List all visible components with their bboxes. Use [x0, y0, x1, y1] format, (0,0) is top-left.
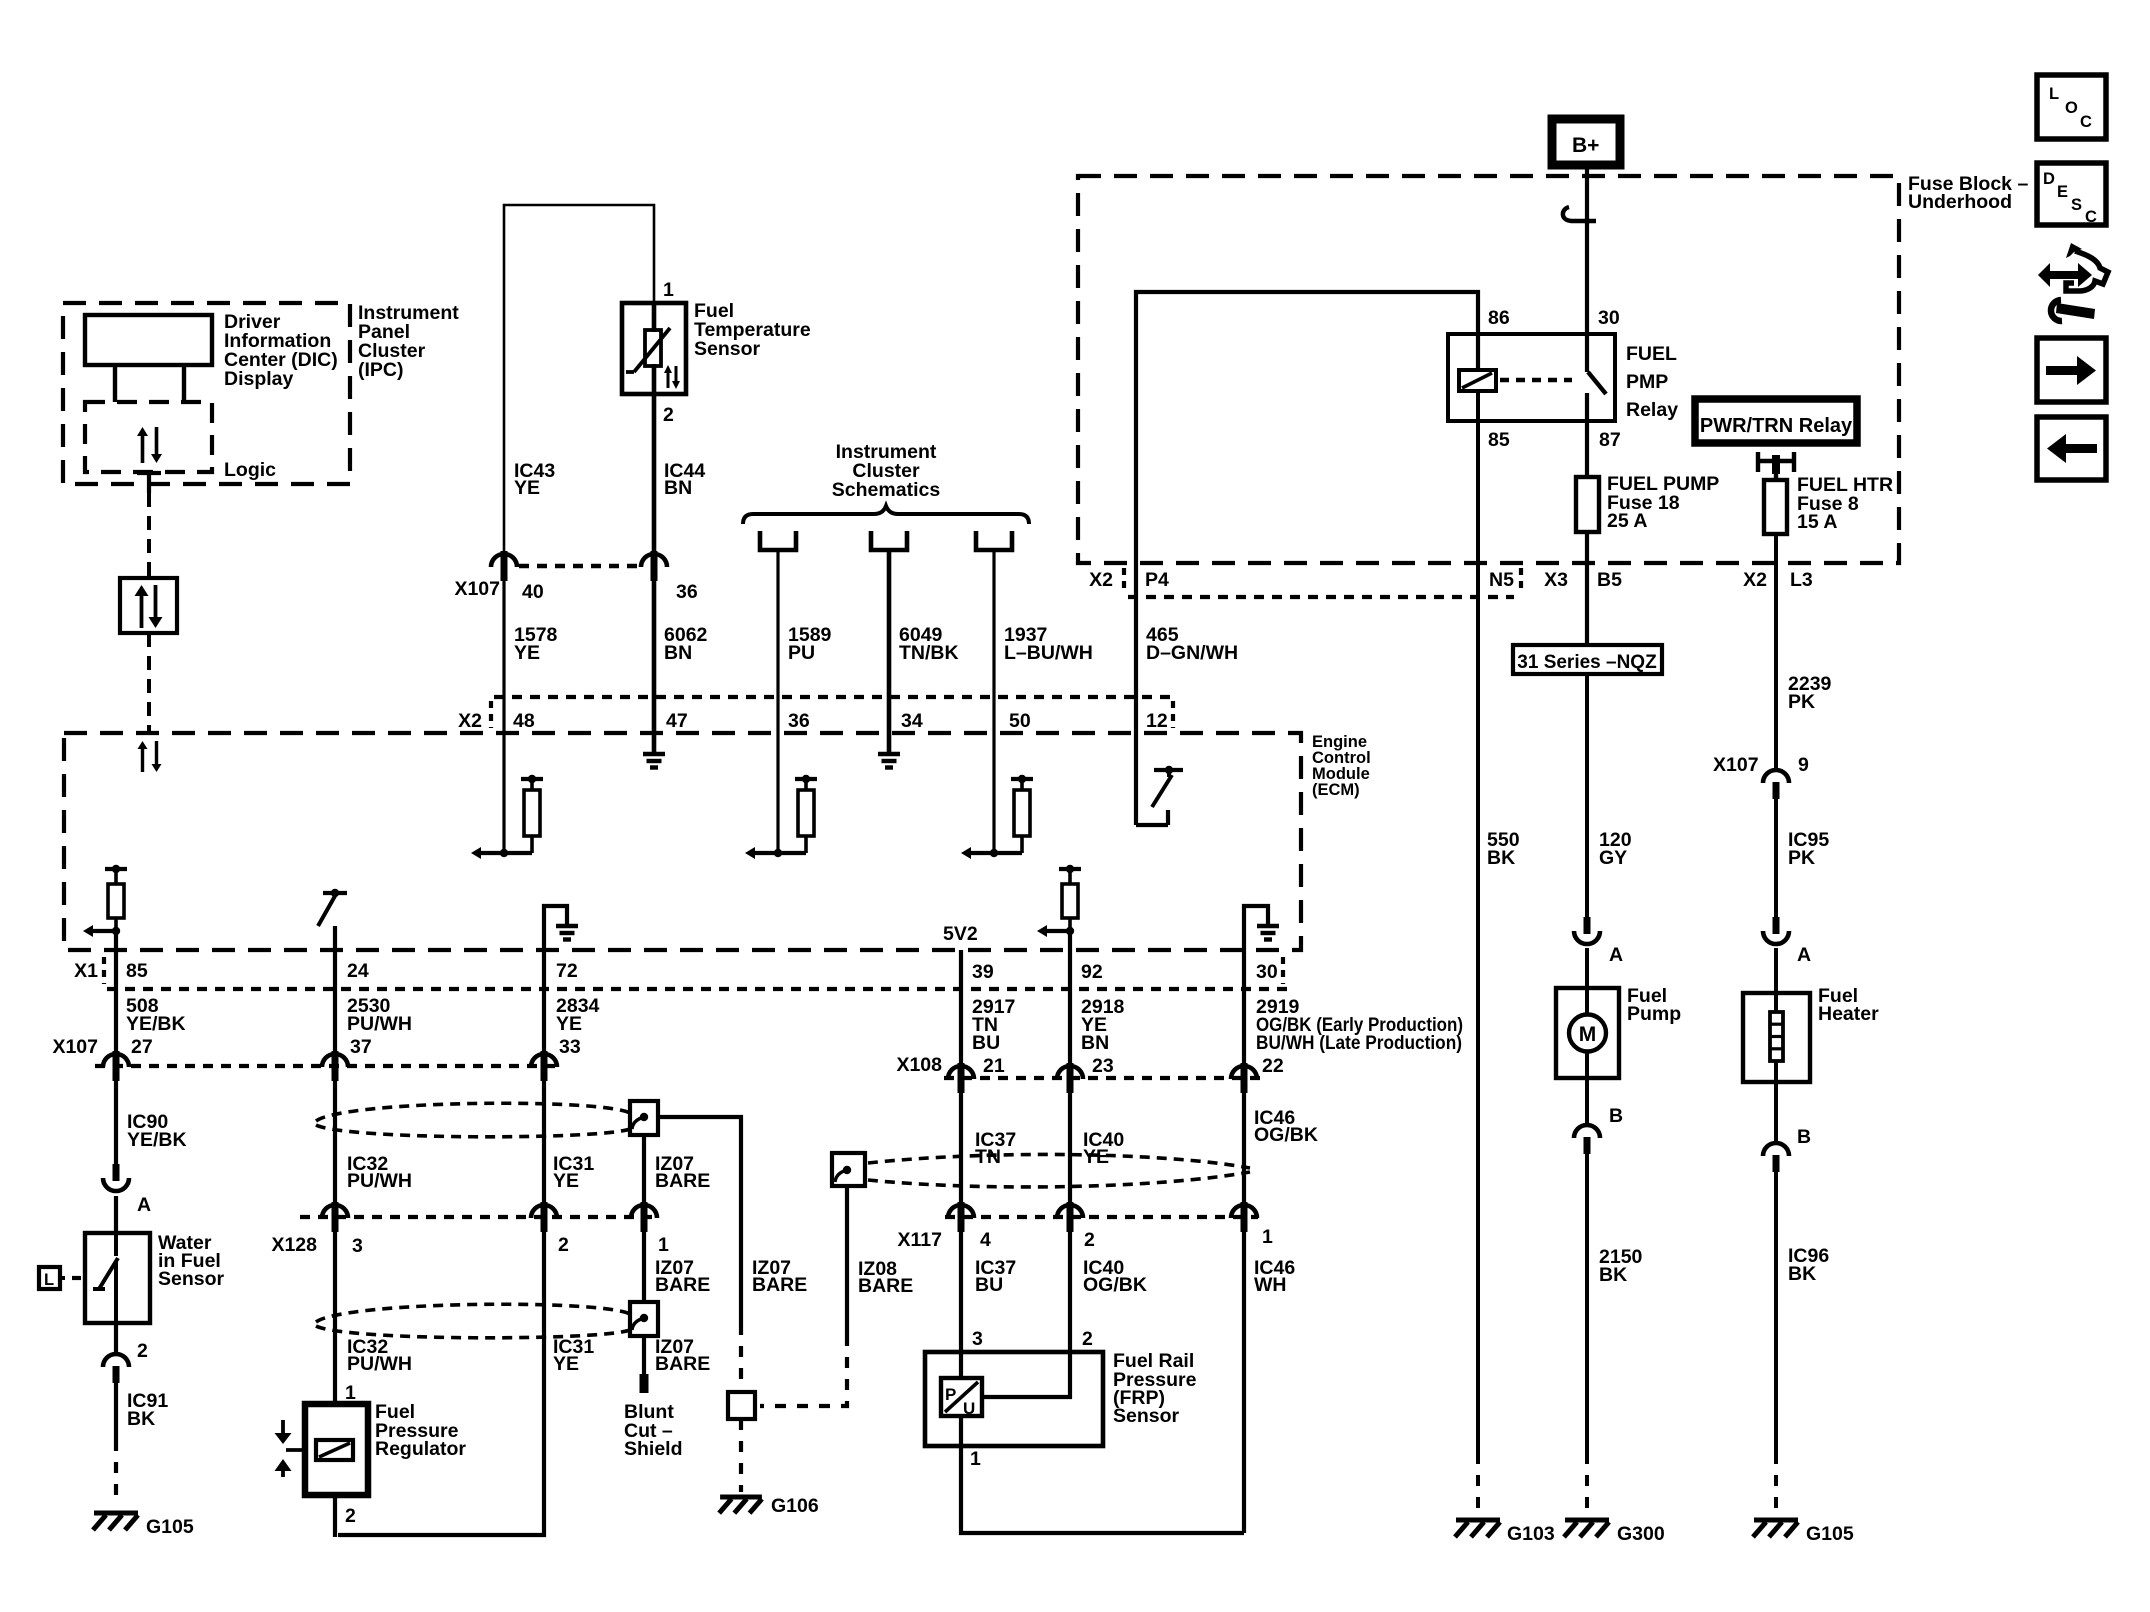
ECM serial data arrows	[138, 741, 162, 772]
shield termination IZ07 lower	[630, 1302, 658, 1336]
svg-text:PWR/TRN Relay: PWR/TRN Relay	[1700, 415, 1853, 437]
ground G105 left	[93, 1513, 194, 1538]
connector X107 pin 33	[531, 1051, 557, 1081]
Instrument Panel Cluster dashed box	[63, 303, 350, 484]
connector X107 pin 27	[103, 1051, 129, 1081]
fuel heater element	[1770, 993, 1783, 1082]
wire IC32 PU/WH upper	[333, 1081, 337, 1204]
wire 465 D-GN/WH	[1134, 563, 1138, 825]
thermistor arrows	[664, 365, 680, 389]
IZ08 shield drain dashed	[760, 1335, 847, 1406]
IPC receptacle 6049	[871, 531, 907, 550]
svg-text:GY: GY	[1599, 847, 1627, 869]
svg-text:12: 12	[1146, 710, 1168, 732]
wire IC96 BK	[1774, 1160, 1778, 1453]
ground G103	[1455, 1520, 1555, 1545]
IC40 label lower	[1083, 1257, 1147, 1296]
IC96 BK label	[1788, 1245, 1829, 1285]
svg-text:92: 92	[1081, 961, 1103, 983]
Fuel Heater label	[1818, 985, 1879, 1025]
svg-text:X2: X2	[1743, 569, 1767, 591]
wire IC43 YE top jumper	[504, 205, 654, 566]
svg-text:G105: G105	[1806, 1523, 1854, 1545]
svg-text:Sensor: Sensor	[694, 338, 761, 360]
FUEL HTR fuse 8	[1764, 474, 1787, 534]
svg-text:X107: X107	[454, 578, 500, 600]
svg-text:22: 22	[1262, 1055, 1284, 1077]
FRP sensor label	[1113, 1350, 1197, 1427]
IC96 dashed to ground	[1774, 1453, 1778, 1512]
svg-text:1: 1	[345, 1382, 356, 1404]
Instrument Cluster Schematics label	[832, 441, 941, 501]
LOC legend box	[2037, 75, 2106, 139]
IC31 label upper	[553, 1153, 594, 1192]
wire labels row 1012	[126, 995, 1463, 1054]
connector A label	[137, 1194, 151, 1216]
shield drain dashed to G106	[739, 1419, 743, 1492]
svg-text:OG/BK: OG/BK	[1083, 1274, 1147, 1296]
svg-text:B+: B+	[1572, 134, 1599, 157]
svg-text:PU/WH: PU/WH	[347, 1170, 412, 1192]
svg-text:P: P	[945, 1385, 956, 1404]
svg-text:X108: X108	[896, 1054, 942, 1076]
svg-text:(ECM): (ECM)	[1312, 781, 1360, 799]
X117 row labels	[898, 1226, 1273, 1251]
svg-text:15 A: 15 A	[1797, 511, 1837, 533]
svg-text:Sensor: Sensor	[1113, 1405, 1180, 1427]
Blunt Cut Shield label	[624, 1401, 683, 1460]
svg-text:9: 9	[1798, 754, 1809, 776]
svg-text:FUEL: FUEL	[1626, 343, 1677, 365]
IZ07 label lower	[655, 1336, 710, 1375]
svg-text:E: E	[2057, 183, 2068, 201]
next page arrow box	[2037, 338, 2106, 402]
svg-text:BK: BK	[1599, 1264, 1627, 1286]
IC40 label upper	[1083, 1129, 1124, 1168]
svg-text:YE: YE	[1083, 1146, 1109, 1168]
FUEL PMP Relay label	[1626, 343, 1678, 421]
ECM connector X2 dotted line	[494, 695, 1175, 699]
svg-text:X3: X3	[1544, 569, 1568, 591]
connector X117 dotted line	[945, 1215, 1258, 1219]
svg-text:3: 3	[352, 1235, 363, 1257]
wire 2530 PU/WH	[333, 926, 337, 1053]
fuel pump motor	[1569, 988, 1606, 1078]
connector B fuel pump	[1574, 1078, 1623, 1154]
svg-text:86: 86	[1488, 307, 1510, 329]
serial data dashed wire upper	[147, 493, 151, 578]
IC43 IC44 wire labels	[514, 460, 705, 499]
ECM ground pin 47	[643, 754, 665, 768]
svg-text:33: 33	[559, 1036, 581, 1058]
svg-text:P4: P4	[1145, 569, 1169, 591]
water sensor switch	[93, 1233, 118, 1323]
twisted pair ellipse upper left	[316, 1103, 630, 1137]
Fuse Block - Underhood dashed box	[1078, 176, 1899, 563]
FRP pin 1 label	[970, 1448, 981, 1470]
wire labels row 640	[514, 624, 1238, 664]
wire B+ to relay pin 30	[1585, 165, 1589, 334]
svg-text:PMP: PMP	[1626, 371, 1668, 393]
wire 2918 YE BN	[1068, 931, 1072, 1065]
fuel temperature sensor pins	[663, 279, 674, 426]
svg-text:30: 30	[1598, 307, 1620, 329]
IZ07 label middle	[655, 1257, 710, 1296]
svg-text:Display: Display	[224, 368, 294, 390]
svg-text:2: 2	[137, 1340, 148, 1362]
FUEL HTR fuse label	[1797, 474, 1893, 533]
wire IC46 OG/BK	[1242, 1093, 1246, 1204]
FRP sensor pin labels top	[972, 1328, 1093, 1350]
svg-text:25 A: 25 A	[1607, 510, 1647, 532]
IC91 dashed to ground	[114, 1440, 118, 1506]
svg-text:40: 40	[522, 581, 544, 603]
svg-text:1: 1	[970, 1448, 981, 1470]
svg-text:85: 85	[1488, 429, 1510, 451]
svg-text:O: O	[2065, 99, 2078, 117]
connector X128 dotted line	[300, 1215, 658, 1219]
svg-text:BU/WH (Late Production): BU/WH (Late Production)	[1256, 1032, 1462, 1054]
svg-text:BARE: BARE	[858, 1275, 913, 1297]
31 Series -NQZ box	[1513, 532, 1662, 674]
IZ07 drain label	[752, 1257, 807, 1296]
X108 row labels	[896, 1054, 1283, 1077]
svg-text:BK: BK	[1788, 1263, 1816, 1285]
svg-text:Sensor: Sensor	[158, 1268, 225, 1290]
svg-text:YE: YE	[514, 477, 540, 499]
FRP internal wire pin 2	[982, 1352, 1070, 1397]
wire 2834 YE	[542, 950, 546, 1053]
X128 row labels	[271, 1234, 669, 1257]
wire into fuel heater	[1774, 948, 1778, 993]
svg-text:WH: WH	[1254, 1274, 1287, 1296]
relay FUEL PMP box	[1448, 334, 1615, 421]
svg-text:PU: PU	[788, 642, 815, 664]
svg-text:30: 30	[1256, 961, 1278, 983]
PWR/TRN Relay box	[1695, 399, 1857, 443]
FPR pin 1 label	[345, 1382, 356, 1404]
wire 508 YE/BK	[114, 931, 118, 1053]
svg-text:Pump: Pump	[1627, 1003, 1681, 1025]
svg-text:L: L	[44, 1271, 54, 1289]
IPC receptacle 1937	[976, 531, 1012, 550]
svg-text:(IPC): (IPC)	[358, 359, 404, 381]
svg-text:2: 2	[1082, 1328, 1093, 1350]
svg-text:A: A	[137, 1194, 151, 1216]
schematics brace	[743, 506, 1029, 524]
Fuel Rail Pressure sensor box	[925, 1352, 1103, 1446]
wire FPR pin 2	[333, 1495, 337, 1537]
svg-text:50: 50	[1009, 710, 1031, 732]
fuel temperature sensor box	[622, 303, 686, 394]
wire into fuel pump	[1585, 948, 1589, 988]
Fuel Pressure Regulator box	[305, 1404, 368, 1495]
IPC receptacle 1589	[760, 531, 796, 550]
svg-text:85: 85	[126, 960, 148, 982]
wire IZ07 BARE upper	[642, 1135, 646, 1204]
ECM pullup pin 50	[961, 775, 1033, 859]
svg-text:Schematics: Schematics	[832, 479, 941, 501]
IC32 label upper	[347, 1153, 412, 1192]
ECM switch pin 24	[318, 889, 347, 926]
IZ08 drain wire	[845, 1186, 849, 1335]
ECM switch pin 12	[1136, 766, 1183, 825]
connector X117 pin 2	[1057, 1202, 1083, 1232]
wire 1578 YE	[502, 581, 505, 853]
ECM pullup pin 85	[83, 865, 127, 937]
svg-text:YE: YE	[553, 1353, 579, 1375]
svg-text:X107: X107	[52, 1036, 98, 1058]
svg-text:L–BU/WH: L–BU/WH	[1004, 642, 1093, 664]
ECM ground pin 30	[1244, 906, 1279, 950]
5V2 rail label	[943, 923, 978, 945]
B+ power node	[1552, 119, 1620, 165]
fuel temperature sensor label	[694, 300, 811, 360]
Water in Fuel Sensor label	[158, 1232, 225, 1290]
Instrument Panel Cluster label	[358, 302, 459, 381]
FPR pin 2 label	[345, 1505, 356, 1527]
svg-text:G103: G103	[1507, 1523, 1555, 1545]
Fuel Heater box	[1743, 993, 1810, 1082]
Fuel Pump box	[1556, 988, 1619, 1078]
shield termination IZ08	[832, 1153, 865, 1186]
wire 1589 PU	[776, 550, 779, 853]
connector 2 water sensor	[103, 1323, 148, 1383]
shield drain dashed to grommet	[739, 1324, 743, 1392]
550 BK label	[1487, 829, 1520, 869]
svg-text:BN: BN	[1081, 1032, 1109, 1054]
svg-text:BARE: BARE	[655, 1274, 710, 1296]
svg-text:Shield: Shield	[624, 1438, 683, 1460]
X107 top labels	[454, 578, 697, 603]
DIC display label	[224, 311, 338, 390]
wire IC46 WH	[1242, 1232, 1246, 1533]
twisted pair ellipse lower left	[316, 1304, 630, 1338]
connector A fuel pump	[1574, 917, 1623, 966]
twisted pair ellipse right	[868, 1154, 1250, 1187]
wire IC37 TN	[959, 1093, 963, 1204]
connector X128 pin 1	[631, 1202, 657, 1232]
svg-text:X107: X107	[1713, 754, 1759, 776]
connector B fuel heater	[1763, 1082, 1811, 1172]
svg-text:PU/WH: PU/WH	[347, 1353, 412, 1375]
FPR check valve	[275, 1420, 304, 1477]
thermistor symbol	[626, 328, 670, 372]
svg-text:BK: BK	[1487, 847, 1515, 869]
ground G106	[719, 1495, 819, 1517]
svg-text:G106: G106	[771, 1495, 819, 1517]
svg-text:X1: X1	[74, 960, 98, 982]
FUEL PUMP fuse 18	[1576, 393, 1599, 532]
2150 BK label	[1599, 1246, 1643, 1286]
svg-text:U: U	[963, 1399, 975, 1418]
connector A water sensor	[103, 1164, 129, 1191]
connector X128 pin 2	[531, 1202, 557, 1232]
connector X117 pin 1	[1231, 1202, 1257, 1232]
svg-text:BARE: BARE	[655, 1353, 710, 1375]
ECM pullup pin 48	[471, 775, 543, 859]
ECM ground pin 34	[878, 754, 900, 768]
svg-text:N5: N5	[1489, 569, 1514, 591]
PWR/TRN relay contact symbol	[1758, 452, 1794, 482]
svg-text:2: 2	[558, 1234, 569, 1256]
fuse block connector labels N5 X3 B5 X2 L3	[1489, 568, 1813, 592]
svg-text:YE/BK: YE/BK	[126, 1013, 186, 1035]
connector X117 pin 4	[948, 1202, 974, 1232]
FRP P/U transducer	[941, 1378, 982, 1418]
svg-text:2: 2	[345, 1505, 356, 1527]
wire IC31 YE upper	[542, 1081, 546, 1204]
IZ08 label	[858, 1258, 913, 1297]
svg-text:A: A	[1797, 944, 1811, 966]
relay pin 86 lead	[1476, 334, 1480, 370]
IC95 PK label	[1788, 829, 1829, 869]
IC90 label	[127, 1111, 187, 1151]
svg-text:31 Series –NQZ: 31 Series –NQZ	[1517, 652, 1657, 673]
water sensor L tag	[39, 1267, 84, 1289]
wire FRP pin 1 to IC46	[961, 1416, 1244, 1533]
wire IC40 YE	[1068, 1093, 1072, 1204]
logic up/down arrows	[137, 427, 162, 463]
svg-text:D: D	[2043, 170, 2055, 188]
Water in Fuel Sensor box	[85, 1233, 150, 1323]
svg-text:4: 4	[980, 1229, 991, 1251]
relay pin labels	[1488, 307, 1621, 451]
DIC display box	[85, 315, 212, 402]
svg-text:B: B	[1609, 1105, 1623, 1127]
wire 2917 TN BU	[959, 950, 963, 1065]
svg-text:23: 23	[1092, 1055, 1114, 1077]
connector X107 pin 9	[1713, 754, 1809, 799]
IC46 label upper	[1254, 1107, 1318, 1146]
Logic label	[224, 459, 276, 481]
wire IC95 PK	[1774, 787, 1778, 917]
wire to water sensor	[114, 1196, 118, 1233]
relay coil-switch dashed link	[1500, 378, 1572, 382]
2150 dashed to ground	[1585, 1453, 1589, 1512]
svg-text:2: 2	[663, 404, 674, 426]
IZ07 label upper	[655, 1153, 710, 1192]
wire 2239 PK	[1774, 534, 1778, 770]
ground G105 right	[1753, 1520, 1854, 1545]
svg-text:36: 36	[788, 710, 810, 732]
svg-text:OG/BK: OG/BK	[1254, 1124, 1318, 1146]
DIC logic dashed box	[85, 402, 212, 472]
svg-text:Regulator: Regulator	[375, 1438, 466, 1460]
svg-text:72: 72	[556, 960, 578, 982]
Engine Control Module dashed box	[64, 733, 1301, 950]
connector X107 dotted line	[95, 1064, 560, 1068]
IC91 label	[127, 1390, 168, 1430]
DESC legend box	[2037, 163, 2106, 226]
wire IZ07 BARE to blunt cut	[642, 1334, 646, 1374]
connector X108 pin 23	[1057, 1063, 1083, 1093]
wire 6062 BN	[652, 581, 657, 753]
svg-text:Underhood: Underhood	[1908, 191, 2012, 213]
svg-text:24: 24	[347, 960, 369, 982]
IC32 label lower	[347, 1336, 412, 1375]
relay coil	[1459, 370, 1496, 391]
circuit breaker symbol on B+ feed	[1563, 207, 1596, 224]
svg-text:M: M	[1579, 1023, 1597, 1046]
svg-text:87: 87	[1599, 429, 1621, 451]
Fuel Pump label	[1627, 985, 1681, 1025]
550 dashed to ground	[1476, 1453, 1480, 1512]
svg-text:3: 3	[972, 1328, 983, 1350]
harness routing icon	[2038, 243, 2108, 321]
svg-text:X2: X2	[1089, 569, 1113, 591]
relay pin 30 lead and switch blade	[1587, 334, 1606, 394]
wire 2150 BK	[1585, 1142, 1589, 1453]
svg-text:PU/WH: PU/WH	[347, 1013, 412, 1035]
X1 row labels	[74, 957, 1283, 984]
connector X108 pin 21	[948, 1063, 974, 1093]
svg-text:BN: BN	[664, 477, 692, 499]
svg-text:G105: G105	[146, 1516, 194, 1538]
Engine Control Module label	[1312, 733, 1371, 799]
svg-text:B: B	[1797, 1126, 1811, 1148]
svg-text:37: 37	[350, 1036, 372, 1058]
svg-text:YE/BK: YE/BK	[127, 1129, 187, 1151]
svg-text:Relay: Relay	[1626, 399, 1678, 421]
connector X108 pin 22	[1231, 1063, 1257, 1093]
IC37 label upper	[975, 1129, 1016, 1168]
svg-text:5V2: 5V2	[943, 923, 978, 945]
connector X107 pins 40/36	[491, 551, 667, 581]
connector X108 dotted line	[944, 1076, 1262, 1080]
wire IC37 BU	[959, 1232, 963, 1352]
svg-text:Heater: Heater	[1818, 1003, 1879, 1025]
svg-text:47: 47	[666, 710, 688, 732]
wire 120 GY	[1585, 674, 1589, 917]
ECM pullup pin 92	[1037, 865, 1081, 937]
fuse block X2 dotted connector line	[1128, 595, 1514, 599]
connector A fuel heater	[1763, 917, 1811, 966]
fuse block connector labels X2 P4	[1089, 568, 1169, 592]
wire IC32 PU/WH lower	[333, 1232, 337, 1404]
serial data dashed wire lower	[147, 633, 151, 733]
svg-text:PK: PK	[1788, 847, 1815, 869]
svg-text:YE: YE	[553, 1170, 579, 1192]
wire 1937 L-BU/WH	[992, 550, 995, 853]
IC37 label lower	[975, 1257, 1016, 1296]
svg-text:BN: BN	[664, 642, 692, 664]
svg-text:C: C	[2085, 208, 2097, 226]
ground G300	[1564, 1520, 1665, 1545]
svg-text:X2: X2	[458, 710, 482, 732]
wire IC90 YE/BK	[114, 1081, 118, 1181]
wire 2919 OG/BK	[1242, 950, 1246, 1065]
svg-text:BU: BU	[975, 1274, 1003, 1296]
X107 row labels	[52, 1036, 580, 1058]
serial data up/down box	[120, 578, 177, 633]
svg-text:34: 34	[901, 710, 923, 732]
ECM ground pin 72	[544, 906, 578, 950]
svg-text:S: S	[2071, 196, 2082, 214]
svg-text:2: 2	[1084, 1229, 1095, 1251]
svg-text:1: 1	[1262, 1226, 1273, 1248]
shield termination IZ07 upper	[630, 1101, 658, 1135]
connector X107 pin 37	[322, 1051, 348, 1081]
IC31 label lower	[553, 1336, 594, 1375]
svg-text:X128: X128	[271, 1234, 317, 1256]
svg-text:BK: BK	[127, 1408, 155, 1430]
wire IC44 BN	[652, 303, 657, 551]
grommet box G106	[728, 1392, 755, 1419]
svg-text:G300: G300	[1617, 1523, 1665, 1545]
wire IZ07 BARE middle	[642, 1232, 646, 1302]
wire 465 into relay pin 86	[1136, 292, 1478, 563]
